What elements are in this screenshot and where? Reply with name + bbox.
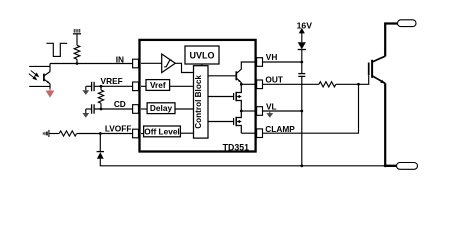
- wire IGBT collector to top terminal: [385, 24, 398, 57]
- diode D2 (LVOFF clamp, cathode up): [97, 152, 104, 159]
- wire Control Block to M2 gate: [208, 121, 234, 123]
- transistor M1 (sink MOSFET): [234, 84, 242, 111]
- wire VH net: [263, 61, 302, 63]
- node VL junction: [300, 110, 303, 113]
- pin LVOFF (square): [133, 129, 139, 138]
- pin VL (square): [257, 107, 263, 116]
- wire gate net: [336, 75, 369, 84]
- wire Control Block to NPN base: [208, 75, 236, 77]
- svg-text:VREF: VREF: [101, 76, 123, 86]
- svg-text:Delay: Delay: [150, 103, 173, 113]
- M2 body arrowhead: [236, 120, 240, 123]
- wire Vref block to Control Block: [170, 85, 194, 87]
- terminal (emitter): [397, 163, 418, 170]
- wire UVLO to Control Block: [201, 64, 203, 66]
- capacitor C3 (supply decoupling): [298, 74, 305, 77]
- pin CD (square): [133, 105, 139, 114]
- resistor R3 (LVOFF): [50, 131, 77, 136]
- wire IN net: [50, 64, 133, 72]
- wire VL net: [263, 110, 302, 112]
- diode D1 (supply, anode top): [298, 42, 306, 49]
- node VH junction: [300, 61, 303, 64]
- wire CD net: [86, 109, 133, 113]
- svg-text:Vref: Vref: [150, 80, 166, 90]
- svg-text:16V: 16V: [297, 20, 313, 30]
- ground (VREF cap): [82, 90, 89, 95]
- terminal (collector): [398, 20, 417, 27]
- transistor Q1 (NPN source stage): [236, 69, 241, 82]
- node IGBT emitter rail junction: [384, 164, 387, 167]
- wire IGBT emitter to rail: [384, 83, 386, 166]
- pin CLAMP (square): [257, 129, 263, 138]
- node OUT internal junction: [240, 83, 243, 86]
- wire OUT inside: [241, 83, 256, 85]
- optocoupler phototransistor: [44, 72, 50, 90]
- battery (negative bias) on LVOFF: [43, 130, 49, 137]
- svg-text:TD351: TD351: [223, 142, 250, 152]
- wire Q1 emitter to OUT: [240, 83, 242, 85]
- supply arrow 16V: [300, 29, 304, 42]
- Control Block: [194, 66, 209, 138]
- ground (CD cap): [82, 113, 89, 118]
- resistor R4 (gate resistor): [319, 82, 336, 87]
- ground (VL net): [266, 111, 273, 118]
- wire IN inside IC: [141, 62, 162, 64]
- transistor Z1 (IGBT): [369, 56, 386, 83]
- wire C3 to VL node: [301, 76, 303, 111]
- pin IN (square): [133, 59, 139, 68]
- wire CD pin to Delay block: [141, 108, 147, 110]
- wire VL to emitter rail: [301, 111, 303, 166]
- node CD/R2 junction: [100, 108, 103, 111]
- Off Level block: [144, 126, 181, 137]
- resistor R2 (VREF to CD): [98, 86, 103, 109]
- resistor R1 (pull-up on IN): [74, 34, 80, 63]
- wire rail to bottom terminal: [385, 165, 397, 167]
- pin VH (square): [257, 58, 263, 67]
- node LVOFF/diode junction: [99, 132, 102, 135]
- UVLO block: [185, 46, 219, 64]
- pulse waveform annotation: [46, 43, 67, 56]
- capacitor C2 (CD): [92, 104, 95, 113]
- node gate junction: [357, 83, 360, 86]
- node emitter rail junction: [300, 164, 303, 167]
- svg-text:CLAMP: CLAMP: [265, 124, 295, 134]
- wire VL inside: [241, 110, 256, 112]
- svg-text:UVLO: UVLO: [189, 50, 214, 60]
- svg-text:Off Level: Off Level: [144, 126, 180, 136]
- IGBT emitter arrowhead: [380, 80, 384, 84]
- wire Off Level block to Control Block: [180, 132, 193, 134]
- capacitor C1 (VREF decoupling): [92, 82, 95, 91]
- wire Delay block to Control Block: [175, 108, 194, 110]
- wire diode to emitter rail: [100, 159, 385, 166]
- Vref block: [146, 80, 170, 91]
- supply rail symbol above resistor R1: [73, 29, 81, 34]
- node VREF/R2 junction: [100, 85, 103, 88]
- wire LVOFF pin to Off Level block: [141, 133, 144, 135]
- node IN pull-up junction: [76, 62, 79, 65]
- wire LVOFF net: [77, 133, 133, 135]
- pin VREF (square): [133, 82, 139, 91]
- node VL internal junction: [240, 110, 243, 113]
- wire Control Block to M1 gate: [208, 96, 234, 98]
- wire buffer output to Control Block: [175, 63, 193, 72]
- wire CLAMP net: [263, 84, 359, 133]
- svg-text:IN: IN: [116, 54, 124, 64]
- emitter arrowhead of phototransistor: [47, 81, 50, 84]
- svg-text:CD: CD: [114, 99, 126, 109]
- op-amp input buffer (Schmitt trigger): [162, 54, 176, 73]
- svg-text:LVOFF: LVOFF: [105, 124, 132, 134]
- svg-text:Control Block: Control Block: [194, 75, 203, 129]
- IC TD351 outline U1: [140, 40, 256, 152]
- emitter arrowhead Q1: [238, 80, 241, 83]
- wire CLAMP inside: [241, 132, 256, 134]
- M1 body arrowhead: [236, 95, 240, 98]
- optocoupler U2 package lines: [29, 66, 50, 86]
- wire OUT net: [263, 83, 319, 85]
- Delay block: [147, 103, 175, 114]
- wire LVOFF to diode D2: [99, 134, 101, 152]
- wire VREF net: [86, 86, 133, 90]
- wire D1 to VH node: [301, 50, 303, 74]
- optocoupler light arrows: [29, 71, 39, 80]
- svg-text:VH: VH: [266, 52, 278, 62]
- wire VREF pin to Vref block: [141, 85, 146, 87]
- pin OUT (square): [257, 80, 263, 89]
- svg-text:VL: VL: [266, 101, 277, 111]
- wire Q1 collector to VH pin: [241, 62, 256, 69]
- svg-text:OUT: OUT: [265, 75, 283, 85]
- transistor M2 (clamp MOSFET): [234, 111, 242, 133]
- ground arrow (red) under optocoupler: [47, 89, 54, 97]
